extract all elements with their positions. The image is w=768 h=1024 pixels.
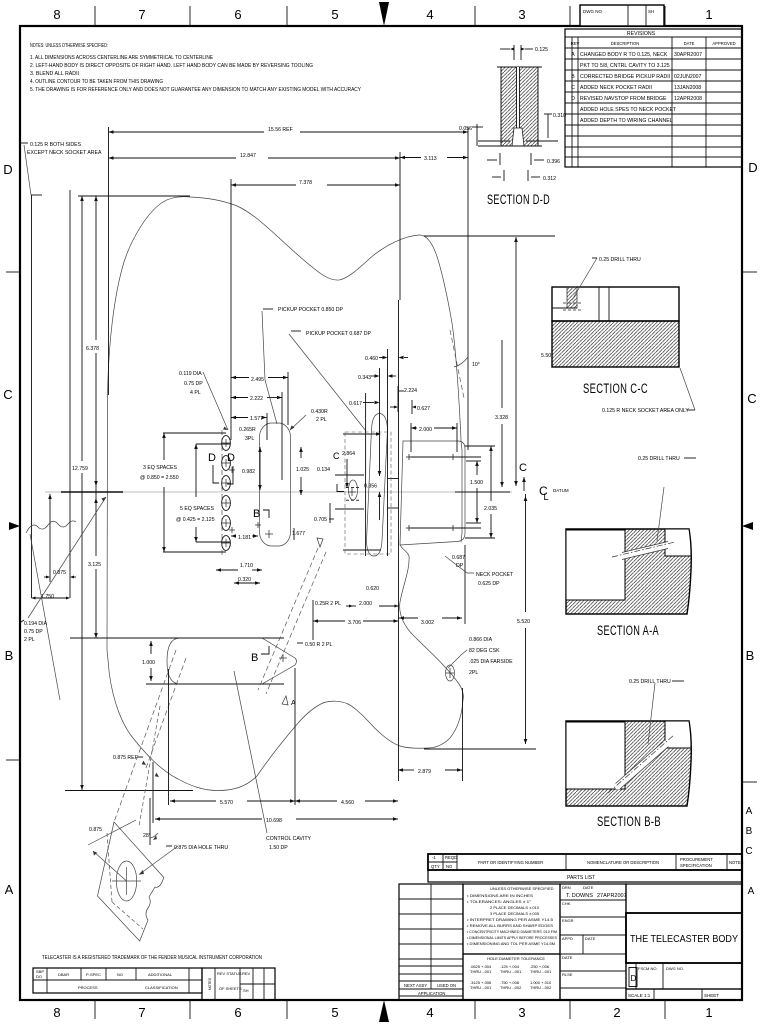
svg-text:0.320: 0.320 (238, 577, 251, 583)
svg-text:2.879: 2.879 (418, 769, 431, 775)
svg-text:0.265R: 0.265R (239, 427, 256, 433)
svg-text:C: C (571, 85, 575, 91)
svg-text:5 EQ SPACES: 5 EQ SPACES (180, 506, 214, 512)
svg-text:0.627: 0.627 (417, 406, 430, 412)
svg-text:4. OUTLINE CONTOUR TO BE TAKEN: 4. OUTLINE CONTOUR TO BE TAKEN FROM THIS… (30, 79, 163, 85)
svg-text:UNLESS OTHERWISE SPECIFIED: UNLESS OTHERWISE SPECIFIED (490, 886, 554, 891)
svg-text:3. BLEND ALL RADII: 3. BLEND ALL RADII (30, 71, 79, 77)
svg-text:D: D (631, 974, 637, 983)
svg-text:2.222: 2.222 (250, 396, 263, 402)
svg-text:DWG NO: DWG NO (583, 9, 602, 14)
svg-text:THRU -.001: THRU -.001 (470, 969, 492, 974)
svg-text:DWG NO.: DWG NO. (666, 966, 684, 971)
svg-text:ADDED HOLE SPES TO NECK POCKET: ADDED HOLE SPES TO NECK POCKET (580, 107, 677, 113)
svg-text:C: C (747, 391, 756, 406)
svg-text:@ 0.850 = 2.550: @ 0.850 = 2.550 (140, 475, 179, 481)
svg-text:7: 7 (138, 7, 145, 22)
svg-text:0.25R 2 PL: 0.25R 2 PL (315, 601, 341, 607)
svg-text:NEXT ASSY: NEXT ASSY (404, 983, 427, 988)
svg-text:• DIMENSIONAL LIMITS APPLY BEF: • DIMENSIONAL LIMITS APPLY BEFORE PROCES… (467, 935, 557, 940)
svg-text:OF SHEETS: OF SHEETS (219, 986, 242, 991)
svg-text:SPECIFICATION: SPECIFICATION (680, 863, 712, 868)
svg-text:REV: REV (242, 971, 251, 976)
svg-text:2: 2 (613, 1005, 620, 1020)
svg-text:PROCESS: PROCESS (78, 985, 98, 990)
svg-text:• INTERPRET DRAWING PER ASME Y: • INTERPRET DRAWING PER ASME Y14.5 (467, 917, 554, 922)
svg-text:C: C (519, 462, 527, 474)
svg-text:RLSE: RLSE (562, 972, 573, 977)
svg-text:1.025: 1.025 (296, 467, 309, 473)
svg-text:0.75 DP: 0.75 DP (24, 629, 43, 635)
svg-text:PROCUREMENT: PROCUREMENT (680, 857, 713, 862)
svg-text:2 PL: 2 PL (316, 417, 327, 423)
svg-text:1.181: 1.181 (238, 535, 251, 541)
svg-text:3.706: 3.706 (348, 620, 361, 626)
svg-text:7.378: 7.378 (299, 180, 312, 186)
svg-text:7: 7 (138, 1005, 145, 1020)
svg-text:1.577: 1.577 (250, 416, 263, 422)
svg-text:1.50 DP: 1.50 DP (269, 845, 288, 851)
svg-text:12APR2008: 12APR2008 (674, 96, 702, 102)
svg-text:SHEET: SHEET (704, 993, 719, 998)
svg-text:0.056: 0.056 (459, 126, 472, 132)
svg-text:6.378: 6.378 (86, 346, 99, 352)
svg-text:PICKUP POCKET 0.687 DP: PICKUP POCKET 0.687 DP (306, 331, 372, 337)
svg-text:NOTES: NOTES (729, 860, 744, 865)
svg-text:CLASSIFICATION: CLASSIFICATION (145, 985, 178, 990)
svg-text:0.125 R BOTH SIDES: 0.125 R BOTH SIDES (30, 142, 82, 148)
svg-text:• TOLERANCES: ANGLES ± 1°: • TOLERANCES: ANGLES ± 1° (467, 899, 531, 904)
svg-text:0.50 R 2 PL: 0.50 R 2 PL (305, 642, 333, 648)
svg-text:REVISED NAVSTOP FROM BRIDGE: REVISED NAVSTOP FROM BRIDGE (580, 96, 667, 102)
svg-text:B: B (251, 652, 258, 664)
svg-text:3.328: 3.328 (495, 415, 508, 421)
svg-text:ADDED DEPTH TO WIRING CHANNEL: ADDED DEPTH TO WIRING CHANNEL (580, 118, 673, 124)
svg-text:6: 6 (234, 7, 241, 22)
svg-text:8: 8 (53, 7, 60, 22)
svg-text:1: 1 (705, 7, 712, 22)
svg-text:0.343: 0.343 (358, 375, 371, 381)
svg-text:2.224: 2.224 (404, 388, 417, 394)
svg-text:SECTION B-B: SECTION B-B (597, 814, 661, 829)
svg-text:THRU -.001: THRU -.001 (470, 985, 492, 990)
svg-text:0.705: 0.705 (314, 517, 327, 523)
svg-text:5.570: 5.570 (220, 800, 233, 806)
svg-text:1.000: 1.000 (142, 660, 155, 666)
svg-text:2 PL: 2 PL (24, 637, 35, 643)
svg-text:0.617: 0.617 (349, 401, 362, 407)
svg-text:0.875 DIA HOLE THRU: 0.875 DIA HOLE THRU (174, 845, 228, 851)
svg-text:PART OR IDENTIFYING NUMBER: PART OR IDENTIFYING NUMBER (478, 860, 543, 865)
svg-text:10.698: 10.698 (266, 818, 282, 824)
svg-text:B: B (5, 648, 14, 663)
svg-text:8: 8 (53, 1005, 60, 1020)
svg-text:2 PLACE DECIMALS ±.010: 2 PLACE DECIMALS ±.010 (490, 905, 540, 910)
svg-text:ADDED NECK POCKET RADII: ADDED NECK POCKET RADII (580, 85, 652, 91)
svg-text:2.495: 2.495 (251, 377, 264, 383)
svg-text:3 PLACE DECIMALS ±.005: 3 PLACE DECIMALS ±.005 (490, 911, 540, 916)
svg-text:27APR2007: 27APR2007 (597, 893, 627, 899)
svg-text:NOTES: UNLESS OTHERWISE SPECIF: NOTES: UNLESS OTHERWISE SPECIFIED: (30, 43, 108, 49)
svg-text:THRU -.001: THRU -.001 (500, 969, 522, 974)
svg-text:ADDITIONAL: ADDITIONAL (148, 972, 173, 977)
svg-text:0.312: 0.312 (543, 176, 556, 182)
svg-text:THE TELECASTER BODY: THE TELECASTER BODY (630, 934, 738, 945)
svg-text:CORRECTED BRIDGE PICKUP RADII: CORRECTED BRIDGE PICKUP RADII (580, 74, 670, 80)
svg-text:SH: SH (243, 988, 249, 993)
svg-text:DATUM: DATUM (553, 488, 569, 493)
svg-text:D: D (3, 162, 12, 177)
svg-text:REV: REV (571, 41, 580, 46)
svg-text:DESCRIPTION: DESCRIPTION (611, 41, 640, 46)
svg-text:3: 3 (518, 1005, 525, 1020)
svg-text:PKT TO 5/8, CNTRL CAVITY TO 3.: PKT TO 5/8, CNTRL CAVITY TO 3.125 (580, 63, 670, 69)
svg-text:3.125: 3.125 (88, 562, 101, 568)
svg-text:0.875: 0.875 (53, 570, 66, 576)
svg-text:CHANGED BODY R TO 0.125, NECK: CHANGED BODY R TO 0.125, NECK (580, 52, 668, 58)
svg-text:CHK: CHK (562, 901, 571, 906)
svg-text:5. THE DRAWING IS FOR REFERENC: 5. THE DRAWING IS FOR REFERENCE ONLY AND… (30, 87, 361, 93)
svg-text:4 PL: 4 PL (190, 390, 201, 396)
svg-text:3.002: 3.002 (421, 620, 434, 626)
svg-text:0.194 DIA: 0.194 DIA (24, 621, 48, 627)
svg-text:0.430R: 0.430R (311, 409, 328, 415)
svg-text:• DIMENSIONS ARE IN INCHES: • DIMENSIONS ARE IN INCHES (467, 893, 533, 898)
svg-text:D: D (571, 96, 575, 102)
svg-text:DATE: DATE (684, 41, 695, 46)
svg-text:C: C (745, 846, 752, 857)
svg-text:1. ALL DIMENSIONS ACROSS CENTE: 1. ALL DIMENSIONS ACROSS CENTERLINE ARE … (30, 55, 213, 61)
svg-text:0.625 DP: 0.625 DP (478, 581, 500, 587)
svg-text:DO: DO (36, 974, 42, 979)
svg-text:SCALE 1:1: SCALE 1:1 (628, 993, 651, 998)
svg-text:10°: 10° (472, 362, 480, 368)
svg-text:B: B (746, 826, 753, 837)
svg-text:12.847: 12.847 (240, 153, 256, 159)
svg-text:SECTION A-A: SECTION A-A (597, 623, 659, 638)
svg-text:THRU -.002: THRU -.002 (500, 985, 522, 990)
svg-text:82 DEG CSK: 82 DEG CSK (469, 648, 500, 654)
svg-text:PICKUP POCKET 0.850 DP: PICKUP POCKET 0.850 DP (278, 307, 344, 313)
svg-text:0.125: 0.125 (535, 47, 548, 53)
svg-text:REV STATUS: REV STATUS (217, 971, 242, 976)
svg-text:0.875 REF: 0.875 REF (113, 755, 138, 761)
svg-text:0.620: 0.620 (366, 586, 379, 592)
svg-text:0.125 R NECK SOCKET AREA ONLY: 0.125 R NECK SOCKET AREA ONLY (602, 408, 689, 414)
svg-text:0.25 DRILL THRU: 0.25 DRILL THRU (599, 257, 641, 263)
svg-text:0.875: 0.875 (89, 827, 102, 833)
svg-text:B: B (571, 74, 575, 80)
svg-text:1.500: 1.500 (470, 480, 483, 486)
svg-text:A: A (748, 886, 755, 897)
svg-text:TELECASTER IS A REGISTERED TRA: TELECASTER IS A REGISTERED TRADEMARK OF … (42, 955, 262, 961)
svg-text:THRU -.001: THRU -.001 (530, 969, 552, 974)
svg-text:15.56 REF: 15.56 REF (268, 127, 293, 133)
svg-text:• DIMENSIONING AND TOL PER ASM: • DIMENSIONING AND TOL PER ASME Y14.5M (467, 941, 555, 946)
svg-text:5: 5 (331, 1005, 338, 1020)
svg-text:0.25 DRILL THRU: 0.25 DRILL THRU (638, 456, 680, 462)
svg-text:HOLE DIAMETER TOLERANCE: HOLE DIAMETER TOLERANCE (487, 956, 545, 961)
svg-text:USED ON: USED ON (437, 983, 456, 988)
svg-text:0.356: 0.356 (364, 484, 377, 490)
svg-text:APPLICATION: APPLICATION (418, 991, 445, 996)
svg-text:0.134: 0.134 (317, 467, 330, 473)
svg-text:5: 5 (331, 7, 338, 22)
svg-text:D: D (208, 452, 216, 464)
svg-text:DP: DP (456, 563, 464, 569)
svg-text:02JUN2007: 02JUN2007 (674, 74, 702, 80)
svg-text:FSCM NO.: FSCM NO. (638, 966, 658, 971)
svg-text:1.677: 1.677 (292, 531, 305, 537)
svg-text:4.560: 4.560 (341, 800, 354, 806)
svg-text:SECTION D-D: SECTION D-D (487, 192, 550, 207)
svg-text:2PL: 2PL (469, 670, 478, 676)
svg-text:0.982: 0.982 (242, 469, 255, 475)
svg-text:30APR2007: 30APR2007 (674, 52, 702, 58)
svg-text:EXCEPT NECK SOCKET AREA: EXCEPT NECK SOCKET AREA (27, 150, 102, 156)
svg-text:5.50: 5.50 (541, 353, 551, 359)
svg-text:REQD: REQD (445, 855, 457, 860)
svg-text:DATE: DATE (583, 885, 594, 890)
svg-text:@ 0.425 = 2.125: @ 0.425 = 2.125 (176, 517, 215, 523)
svg-text:1: 1 (705, 1005, 712, 1020)
svg-text:NO: NO (446, 864, 453, 869)
svg-text:5.520: 5.520 (517, 619, 530, 625)
svg-text:A: A (571, 52, 575, 58)
svg-text:NECK POCKET: NECK POCKET (476, 572, 514, 578)
svg-text:QTY: QTY (431, 864, 440, 869)
svg-text:D: D (748, 160, 757, 175)
svg-text:C: C (333, 451, 340, 461)
svg-text:0.119 DIA: 0.119 DIA (179, 371, 202, 377)
svg-text:6: 6 (234, 1005, 241, 1020)
svg-text:C: C (3, 387, 12, 402)
svg-text:2.000: 2.000 (419, 427, 432, 433)
svg-text:B: B (746, 648, 755, 663)
svg-text:T. DOWNS: T. DOWNS (566, 893, 593, 899)
svg-text:DRN: DRN (562, 885, 571, 890)
svg-text:3PL: 3PL (245, 436, 254, 442)
svg-text:• REMOVE ALL BURRS AND SHARP E: • REMOVE ALL BURRS AND SHARP EDGES (467, 923, 553, 928)
svg-text:0.687: 0.687 (452, 555, 465, 561)
svg-text:3: 3 (518, 7, 525, 22)
svg-text:13JAN2008: 13JAN2008 (674, 85, 701, 91)
svg-text:NOMENCLATURE OR DESCRIPTION: NOMENCLATURE OR DESCRIPTION (587, 860, 659, 865)
svg-text:4: 4 (426, 1005, 433, 1020)
svg-text:• CONCENTRICITY MACHINED DIAME: • CONCENTRICITY MACHINED DIAMETERS .010 … (467, 929, 557, 934)
svg-text:0.310: 0.310 (553, 113, 566, 119)
svg-text:ENGR: ENGR (562, 918, 574, 923)
svg-text:2.864: 2.864 (342, 451, 355, 457)
svg-text:4: 4 (426, 7, 433, 22)
svg-text:D: D (227, 452, 235, 464)
svg-text:DBAR: DBAR (58, 972, 69, 977)
svg-text:THRU -.002: THRU -.002 (530, 985, 552, 990)
svg-text:0.75 DP: 0.75 DP (184, 381, 203, 387)
svg-text:0.25 DRILL THRU: 0.25 DRILL THRU (629, 679, 671, 685)
svg-text:APPROVED: APPROVED (712, 41, 735, 46)
svg-text:1.710: 1.710 (240, 563, 253, 569)
svg-text:B: B (253, 508, 260, 520)
svg-text:A: A (746, 806, 753, 817)
svg-text:2. LEFT-HAND BODY IS DIRECT OP: 2. LEFT-HAND BODY IS DIRECT OPPOSITE OF … (30, 63, 313, 69)
svg-text:NO: NO (117, 972, 123, 977)
svg-text:3.113: 3.113 (424, 156, 437, 162)
svg-text:.025 DIA FARSIDE: .025 DIA FARSIDE (469, 659, 513, 665)
svg-text:CONTROL CAVITY: CONTROL CAVITY (266, 836, 312, 842)
svg-text:12.759: 12.759 (72, 466, 88, 472)
svg-text:DATE: DATE (562, 955, 573, 960)
svg-text:L: L (544, 492, 549, 502)
svg-text:2.035: 2.035 (484, 506, 497, 512)
svg-text:P-SPEC: P-SPEC (86, 972, 101, 977)
svg-text:0.396: 0.396 (547, 159, 560, 165)
svg-text:2.000: 2.000 (359, 601, 372, 607)
svg-text:A: A (5, 882, 14, 897)
svg-text:0.460: 0.460 (365, 356, 378, 362)
svg-text:NOTES: NOTES (208, 977, 212, 990)
svg-text:SECTION C-C: SECTION C-C (583, 381, 648, 396)
svg-text:APPD: APPD (562, 936, 573, 941)
svg-text:REVISIONS: REVISIONS (627, 31, 656, 37)
svg-text:SH: SH (648, 9, 654, 14)
svg-text:0.866 DIA: 0.866 DIA (469, 637, 493, 643)
svg-text:PARTS LIST: PARTS LIST (567, 875, 595, 881)
svg-text:DATE: DATE (585, 936, 596, 941)
svg-text:3 EQ SPACES: 3 EQ SPACES (143, 465, 177, 471)
